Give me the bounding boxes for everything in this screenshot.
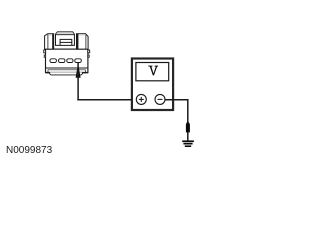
voltmeter V label: [148, 66, 158, 76]
voltmeter display: [136, 63, 169, 81]
connector left side tab upper: [44, 50, 46, 53]
connector center latch tower: [56, 32, 75, 46]
connector lower face line: [46, 67, 88, 69]
connector pin slot 1: [50, 59, 56, 63]
ground drop wire: [187, 99, 189, 141]
connector left side tab lower: [44, 55, 45, 57]
connector C1 body: [46, 49, 88, 73]
probe arrow into pin 4: [76, 63, 81, 78]
wire from negative lead to ground drop: [165, 99, 189, 101]
voltmeter body: [132, 59, 173, 111]
connector left ear: [45, 34, 55, 50]
ground lead boot: [186, 122, 190, 132]
voltmeter positive terminal: [136, 94, 146, 104]
connector pin slot 2: [59, 59, 65, 63]
connector latch window: [60, 39, 72, 45]
connector pin slot 4 (test point): [75, 59, 82, 63]
wire from pin 4 down: [77, 63, 79, 101]
connector bottom plate: [50, 72, 83, 75]
voltmeter negative terminal: [155, 94, 165, 104]
connector right side tab lower: [88, 55, 89, 57]
part number N0099873: [6, 145, 52, 156]
connector pin slot 3: [67, 59, 73, 63]
connector inner step line: [48, 70, 85, 72]
connector right side tab upper: [88, 50, 90, 53]
connector bottom edge: [46, 72, 88, 74]
connector right ear: [77, 34, 89, 50]
ground symbol: [182, 140, 194, 147]
wire to voltmeter positive lead: [77, 99, 136, 101]
